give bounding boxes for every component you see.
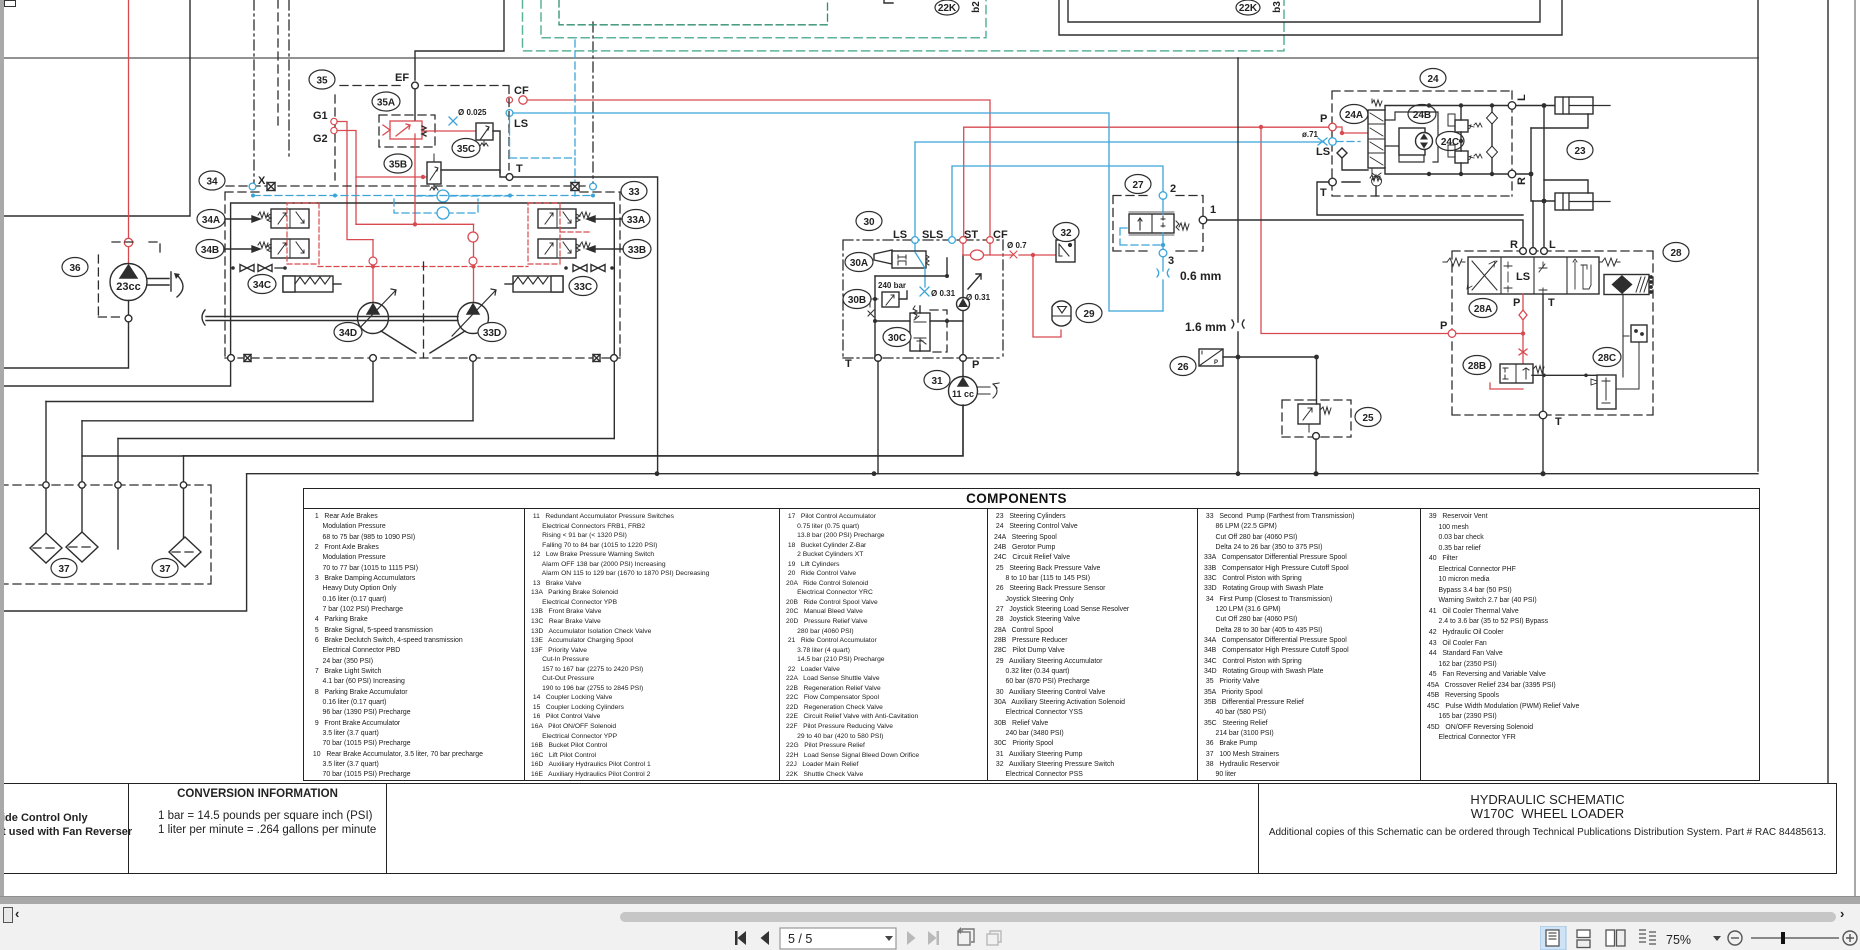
solenoid 28	[1604, 275, 1652, 295]
label 34D	[334, 323, 362, 342]
strainer 37 diamond left B	[66, 532, 98, 562]
wire: 35B to T	[441, 170, 505, 177]
valve 25 body	[1298, 404, 1331, 432]
node 22K right	[1236, 0, 1283, 15]
svg-text:T: T	[1320, 187, 1327, 199]
node blue right	[590, 183, 597, 190]
svg-text:ø.71: ø.71	[1302, 130, 1319, 139]
svg-text:33: 33	[628, 187, 640, 198]
svg-text:35B: 35B	[389, 160, 407, 171]
priority spool 30C	[910, 306, 930, 351]
wire: T drop from 28	[1542, 295, 1544, 412]
label 29	[1076, 304, 1102, 323]
wire: pilot red to 35B	[356, 176, 427, 178]
wire: 30C links	[875, 321, 963, 358]
wire: red pilot dashed cross-link	[318, 266, 528, 268]
wire: dash-dot boundary x=254	[253, 0, 255, 183]
svg-text:35C: 35C	[457, 144, 475, 155]
wire: pump outlet drops	[373, 358, 473, 421]
wire: LS blue line to steering valve	[915, 141, 1324, 143]
wire: L R rails inside 24	[1385, 106, 1508, 175]
wire: dashed boundary x=278	[277, 0, 279, 126]
pump 34D rotating group	[352, 289, 416, 353]
svg-text:T: T	[516, 163, 523, 175]
wire: brake pump red supply x=128	[128, 0, 130, 238]
label 28A	[1469, 299, 1497, 318]
node red inlet	[124, 238, 132, 246]
svg-text:25: 25	[1362, 413, 1374, 424]
label 24C	[1436, 132, 1464, 151]
resolver 27 dashed box	[1113, 196, 1203, 252]
svg-text:Ø 0.31: Ø 0.31	[966, 293, 991, 302]
svg-text:L: L	[1549, 239, 1556, 251]
wire: G1 red drop	[337, 122, 373, 240]
wire: dash-dot boundary x=289	[288, 0, 290, 160]
svg-text:LS: LS	[1316, 146, 1330, 158]
orifice marks bottom	[244, 355, 251, 362]
label 30A	[845, 253, 873, 272]
svg-text:240 bar: 240 bar	[878, 281, 906, 290]
wire: EF feed from top	[415, 0, 504, 80]
svg-text:R: R	[1510, 239, 1518, 251]
label 33C	[569, 277, 597, 296]
orifice symbol right	[571, 183, 579, 191]
svg-text:33B: 33B	[628, 245, 646, 256]
wire: strainer drop x=46	[45, 402, 47, 536]
label 35C	[452, 139, 480, 158]
wire: return line y=438	[118, 438, 614, 440]
svg-text:5 / 5: 5 / 5	[788, 932, 812, 946]
footer row	[0, 783, 1837, 874]
svg-text:LS: LS	[893, 229, 907, 241]
wire: return line y=456	[184, 404, 964, 456]
label 33	[621, 182, 647, 201]
label 28C	[1593, 348, 1621, 367]
wire: strainer drop x=188	[183, 456, 185, 539]
pressure switch 32	[1056, 240, 1075, 262]
check valve 30	[957, 298, 970, 311]
wire: G2 red drop	[337, 131, 356, 225]
nav controls	[725, 926, 1015, 950]
node X blue	[249, 183, 256, 190]
label 34A	[197, 210, 225, 229]
svg-text:26: 26	[1177, 362, 1189, 373]
svg-text:R: R	[1516, 177, 1528, 185]
steering spool 24A	[1368, 99, 1385, 186]
node P	[1329, 123, 1337, 131]
wire: red CF row to switch	[963, 254, 1056, 256]
wire: riser x=1238 with 1.6mm gap	[1237, 58, 1239, 474]
flow meter red circle	[971, 250, 984, 260]
wire: line 1 to steering circuit	[1207, 220, 1523, 251]
node 22K left	[935, 0, 982, 15]
label 33D	[478, 323, 506, 342]
wire: case drain returns	[46, 401, 373, 403]
pump 33D rotating group	[430, 289, 496, 353]
label 28	[1663, 243, 1689, 262]
label 35B	[384, 154, 412, 173]
wire: spool bottom to T	[1342, 182, 1376, 196]
label 37 right	[152, 559, 178, 578]
pressure reducer 28B	[1500, 364, 1544, 383]
node R port	[1508, 170, 1516, 178]
left gray strip	[0, 0, 4, 904]
wire: left vertical x=188 from top to strainer	[0, 0, 190, 216]
red node pilot 33	[469, 257, 477, 265]
wire: LS drop into valve	[914, 243, 916, 252]
svg-text:LS: LS	[1516, 271, 1530, 283]
label 28B	[1463, 356, 1491, 375]
pump group solid frame	[0, 203, 614, 439]
svg-text:24: 24	[1427, 74, 1439, 85]
pump 31 body 11cc	[949, 377, 1000, 406]
svg-text:P: P	[1320, 113, 1327, 125]
node CF origin	[507, 97, 513, 103]
node P joystick	[1448, 330, 1456, 338]
svg-text:P: P	[1440, 320, 1447, 332]
label 30C	[883, 328, 911, 347]
svg-text:28: 28	[1670, 248, 1682, 259]
wire: red under 28B	[1490, 383, 1523, 389]
cylinder 23 lower	[1555, 193, 1610, 210]
pump 36 dashed enclosure	[98, 242, 160, 317]
valve 30 dash-dot enclosure	[843, 240, 1003, 358]
wire: red pilot cross runs	[356, 134, 474, 224]
wire: tank return vertical x=1758	[1757, 0, 1759, 471]
svg-text:33C: 33C	[574, 282, 592, 293]
wire: R line	[1516, 128, 1555, 201]
wire: drop x=118	[117, 439, 119, 550]
dark divider band	[0, 896, 1860, 905]
wire: red pilot riser 33	[473, 224, 475, 303]
wire: blue through resolver	[1162, 199, 1164, 249]
wire: pump 31 outlet	[82, 405, 963, 456]
label 24B	[1408, 105, 1436, 124]
wire: 34B arrow	[224, 246, 260, 252]
svg-text:35A: 35A	[377, 98, 395, 109]
svg-text:Ø 0.31: Ø 0.31	[931, 289, 956, 298]
pilot dump valve 28C	[1591, 294, 1629, 409]
wire: 25 drop	[1315, 357, 1318, 474]
node LS	[1329, 138, 1337, 146]
svg-text:33A: 33A	[627, 215, 645, 226]
wire: T drop	[877, 361, 879, 474]
strainer 37 diamond left A	[30, 533, 62, 563]
relief valves 24C	[1448, 103, 1482, 176]
wire: red pilot dashed box 33	[528, 203, 590, 264]
wire: red pilot dashed box 34	[287, 203, 319, 264]
svg-text:2: 2	[1170, 183, 1176, 195]
svg-text:P: P	[1513, 297, 1520, 309]
top-left partial box	[4, 0, 16, 7]
svg-text:34: 34	[206, 177, 218, 188]
wire: drop x=657	[514, 177, 658, 474]
view mode icons	[1540, 926, 1660, 950]
shaft through pumps	[206, 317, 458, 321]
svg-text:35: 35	[316, 76, 328, 87]
wire: LS blue line	[510, 113, 1164, 311]
svg-text:T: T	[1548, 297, 1555, 309]
diff pressure relief 35B	[427, 154, 441, 190]
wire: dash-dot boundary x=593	[592, 22, 594, 186]
orifice bowties right	[564, 265, 614, 272]
wire: red pilot verticals 34	[372, 240, 374, 303]
wire: link row	[875, 258, 947, 276]
orifice 0.7	[1010, 251, 1017, 258]
svg-text:CF: CF	[993, 229, 1008, 241]
cylinder 23 upper	[1555, 97, 1610, 114]
label 31	[924, 371, 950, 390]
label 24A	[1340, 105, 1368, 124]
wire: P drop to pump 31	[962, 361, 964, 377]
activation solenoid 30A	[874, 250, 929, 268]
orifice bowties left	[231, 265, 287, 272]
wire: drops to joystick valve ports	[1533, 106, 1544, 252]
wire: 33B arrow	[587, 246, 623, 252]
check diamond	[1337, 148, 1347, 158]
node 2	[1159, 192, 1167, 200]
svg-text:L: L	[1516, 94, 1528, 101]
center dashed divider	[423, 262, 425, 358]
wire: red P feed inside 28	[1456, 294, 1523, 368]
label 27	[1125, 175, 1151, 194]
svg-text:11 cc: 11 cc	[952, 389, 974, 399]
orifice X symbol	[267, 183, 275, 191]
priority spool 35A	[379, 115, 435, 147]
label 33A	[622, 210, 650, 229]
wire: 30A blue link	[915, 252, 925, 287]
label 30B	[843, 290, 871, 309]
wire: red supply to steering P	[964, 126, 1329, 128]
compensator spool 34A	[258, 209, 309, 228]
wire: L line to upper cylinder	[1516, 105, 1555, 107]
svg-text:G2: G2	[313, 133, 328, 145]
wire: main horizontal bus y=58	[0, 57, 1758, 59]
wire: 33A arrow	[587, 216, 622, 222]
svg-text:T: T	[1555, 416, 1562, 428]
wire: teal pilot bracket inner	[559, 0, 828, 25]
svg-text:33D: 33D	[483, 328, 501, 339]
wire: blue dashed center loop	[394, 199, 478, 213]
svg-text:P: P	[1214, 360, 1218, 366]
svg-text:31: 31	[931, 376, 943, 387]
orifice 0.31 blue	[920, 287, 929, 296]
wire: blue below resolver with 0.6mm gap	[1162, 257, 1164, 311]
steering relief 35C	[476, 123, 500, 173]
svg-text:22K: 22K	[1239, 3, 1258, 14]
label 32	[1053, 223, 1079, 242]
small white box left	[3, 907, 13, 923]
connector box 28C	[1616, 325, 1647, 389]
wire: CF red line	[528, 100, 990, 240]
label 35	[309, 70, 335, 89]
svg-text:1: 1	[1210, 204, 1216, 216]
svg-text:28B: 28B	[1468, 361, 1486, 372]
svg-text:G1: G1	[313, 110, 328, 122]
svg-text:3: 3	[1168, 255, 1174, 267]
COMPONENTS table	[303, 488, 1760, 781]
svg-text:LS: LS	[514, 118, 528, 130]
pump 36 body 23cc	[4, 264, 183, 369]
node T (35)	[506, 174, 513, 181]
svg-text:28A: 28A	[1474, 304, 1492, 315]
horizontal scrollbar thumb	[620, 912, 1836, 922]
compensator spool 33A	[538, 209, 590, 228]
node T and P on 30	[875, 355, 882, 362]
wire: blue dashed from top	[574, 40, 576, 155]
wire: top small box corner	[884, 0, 893, 3]
node 3	[1159, 249, 1167, 257]
label 34	[199, 171, 225, 190]
shaft coupling mark	[202, 310, 205, 325]
node T port	[1329, 178, 1337, 186]
svg-text:37: 37	[58, 564, 70, 575]
resolver valve body	[1129, 212, 1189, 235]
wire: EF into priority spool	[414, 89, 416, 122]
label 26	[1170, 357, 1196, 376]
svg-text:29: 29	[1083, 309, 1095, 320]
wire: left return y=613 and riser x=247	[0, 474, 247, 611]
node port 25	[1313, 433, 1320, 440]
node 1	[1199, 216, 1207, 224]
right gray edge line	[1854, 0, 1856, 899]
node ports pump box bottom	[228, 355, 235, 362]
label 34C	[248, 275, 276, 294]
wire: bottom return bus y=474	[247, 473, 1758, 475]
wire: top black box outer	[1059, 0, 1562, 35]
svg-text:27: 27	[1132, 180, 1144, 191]
svg-text:T: T	[845, 358, 852, 370]
svg-text:Ø 0.7: Ø 0.7	[1007, 241, 1027, 250]
label 37 left	[51, 559, 77, 578]
svg-text:22K: 22K	[938, 3, 957, 14]
svg-text:0.6 mm: 0.6 mm	[1180, 269, 1221, 283]
red node pilot 34	[369, 257, 377, 265]
wire: blue pilot dashed row y=195	[253, 195, 593, 197]
svg-text:b3: b3	[1272, 1, 1283, 13]
wire: blue LS dashed drop at 509	[510, 117, 576, 196]
label 24	[1420, 69, 1446, 88]
wire: sensor tap	[1223, 356, 1317, 358]
svg-text:36: 36	[69, 263, 81, 274]
valve 28 dashed box	[1452, 251, 1653, 415]
svg-text:34A: 34A	[202, 215, 220, 226]
accumulator 29	[1052, 301, 1071, 326]
wire: lower cylinder to L drop	[1544, 180, 1588, 193]
svg-text:1.6 mm: 1.6 mm	[1185, 320, 1226, 334]
wire: upper cylinder rod side	[1531, 114, 1588, 128]
label 36	[62, 258, 88, 277]
svg-text:37: 37	[159, 564, 171, 575]
node LS / SLS / ST / CF	[912, 237, 919, 244]
orifice 0.31 red arrow	[968, 274, 981, 289]
check valve blue	[437, 190, 449, 202]
svg-text:32: 32	[1060, 228, 1072, 239]
strainer 37 diamond right	[169, 537, 201, 567]
wire: SLS blue line to resolver	[915, 142, 1163, 237]
cutoff spool 34B	[258, 239, 309, 258]
svg-text:P: P	[972, 359, 979, 371]
wire: red into spool	[1336, 127, 1368, 133]
wire: teal pilot bracket outer	[523, 0, 1285, 51]
svg-text:30: 30	[863, 217, 875, 228]
cutoff spool 33B	[538, 239, 590, 258]
node ports R L	[1520, 248, 1527, 255]
anti-cavitation diamonds	[1487, 103, 1498, 176]
check valve blue center	[437, 207, 449, 219]
wire: X dashed row	[226, 185, 593, 187]
svg-text:EF: EF	[395, 72, 409, 84]
svg-text:30B: 30B	[848, 295, 866, 306]
svg-text:24A: 24A	[1345, 110, 1363, 121]
gerotor pump 24B	[1385, 112, 1438, 162]
svg-text:30C: 30C	[888, 333, 906, 344]
node ports on reservoir top	[43, 482, 49, 488]
svg-text:CF: CF	[514, 85, 529, 97]
label 34B	[196, 240, 224, 259]
control piston 33C	[505, 276, 563, 292]
svg-text:b2: b2	[971, 1, 982, 13]
label 35A	[372, 92, 400, 111]
wire: red drop to accumulator	[1033, 255, 1061, 337]
svg-text:28C: 28C	[1598, 353, 1616, 364]
wire: T return	[1317, 182, 1523, 215]
label 30	[856, 212, 882, 231]
wire: 34A arrow	[225, 216, 260, 222]
control spool 28A body	[1443, 257, 1620, 294]
valve 35 dashed box	[335, 86, 509, 181]
label 25	[1355, 408, 1381, 427]
wire: strainer drop x=82	[81, 421, 83, 534]
label 33B	[623, 240, 651, 259]
pump group dashed enclosure	[225, 192, 620, 358]
wire: right page border vertical x=1828	[1827, 0, 1829, 783]
node L port	[1508, 102, 1516, 110]
wire: red branch down to joystick valve P	[1261, 127, 1448, 334]
wire: spool output red	[422, 130, 476, 132]
control piston 34C	[283, 276, 341, 292]
wire: top black box inner	[1068, 0, 1540, 22]
svg-text:Ø 0.025: Ø 0.025	[458, 108, 487, 117]
svg-text:24C: 24C	[1441, 137, 1459, 148]
svg-text:34C: 34C	[253, 280, 271, 291]
svg-text:34B: 34B	[201, 245, 219, 256]
svg-text:23: 23	[1574, 146, 1586, 157]
label 23	[1567, 141, 1593, 160]
svg-text:X: X	[258, 175, 266, 187]
sensor 26 body	[1199, 349, 1223, 366]
valve 25 dashed box	[1282, 400, 1351, 437]
svg-text:30A: 30A	[850, 258, 868, 269]
valve 24 dashed box	[1332, 91, 1512, 196]
bottom toolbar area	[0, 904, 1860, 950]
svg-text:23cc: 23cc	[116, 281, 140, 293]
reservoir 38 dashed boundary	[0, 485, 211, 584]
svg-text:34D: 34D	[339, 328, 357, 339]
svg-text:SLS: SLS	[922, 229, 943, 241]
wire: teal pilot bracket middle	[541, 0, 986, 38]
